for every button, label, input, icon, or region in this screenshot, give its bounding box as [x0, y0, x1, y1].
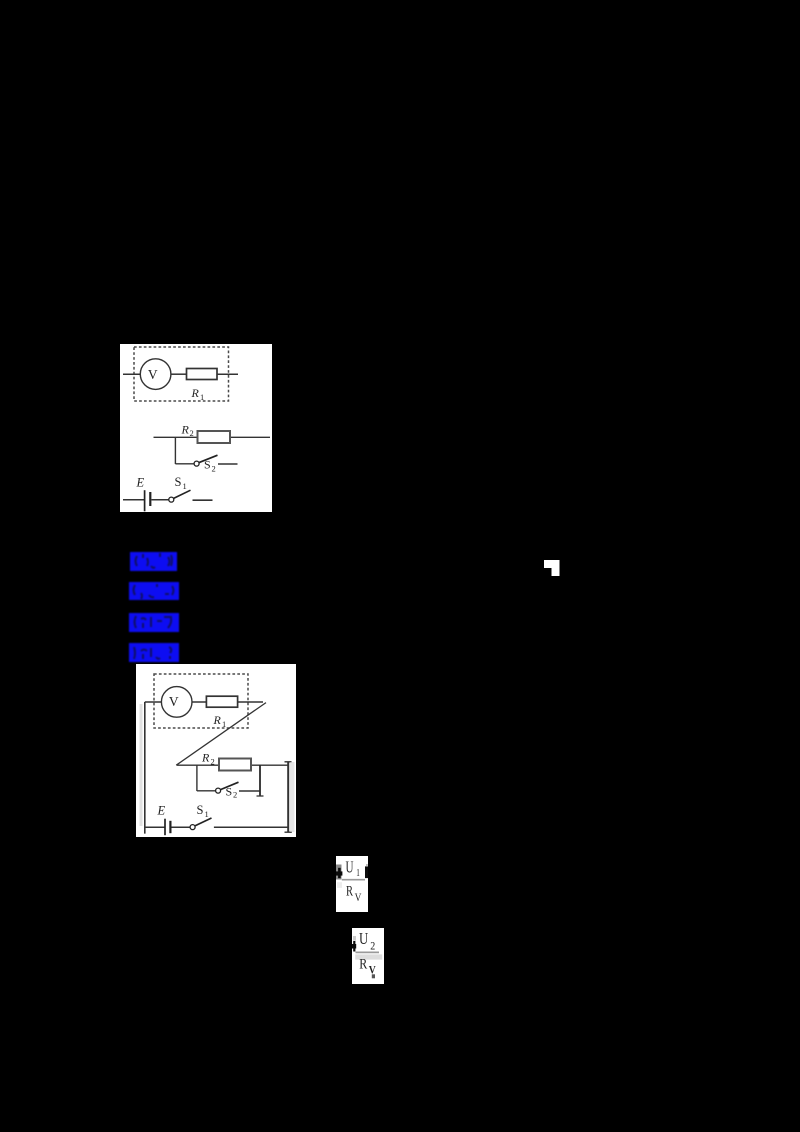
resistor R2 — [198, 431, 231, 443]
svg-text:2: 2 — [212, 463, 216, 473]
svg-text:1: 1 — [356, 867, 360, 879]
fraction U2/RV box — [352, 928, 384, 984]
wire after S1 to right — [213, 826, 287, 828]
wire R2 row — [154, 436, 271, 438]
plus artifact — [338, 868, 341, 878]
wire branch vertical — [174, 437, 176, 464]
svg-text:S: S — [204, 458, 211, 472]
svg-text:S: S — [225, 785, 232, 799]
fraction bar — [342, 879, 365, 881]
left wire gray shadow — [139, 704, 142, 826]
wire branch right vertical — [259, 765, 261, 796]
svg-text:S: S — [175, 475, 182, 489]
svg-text:2: 2 — [370, 940, 375, 952]
battery E long plate — [164, 819, 166, 836]
switch S1 pivot — [190, 825, 195, 830]
resistor R1 — [187, 369, 218, 380]
svg-text:1: 1 — [204, 809, 208, 819]
blue highlight label 3 — [129, 613, 179, 632]
wire lead to V — [144, 701, 161, 703]
gray artifact left — [336, 865, 342, 880]
wire V to R1 — [171, 373, 187, 375]
wire battery to S1 — [152, 499, 169, 501]
wire to battery — [144, 826, 164, 828]
dashed voltmeter box — [154, 674, 248, 728]
svg-text:U: U — [346, 858, 354, 877]
svg-text:R: R — [212, 713, 221, 727]
battery E short plate — [149, 492, 151, 506]
svg-text:R: R — [181, 423, 190, 437]
right bar artifact — [365, 866, 368, 878]
blue highlight label 4 — [129, 643, 179, 662]
wire right vertical top cap — [284, 761, 291, 763]
svg-text:E: E — [156, 804, 165, 818]
battery E long plate — [144, 490, 146, 511]
blue highlight label 1 — [130, 552, 177, 571]
resistor R2 — [219, 759, 251, 771]
wire left vertical — [143, 702, 145, 834]
wire to battery — [123, 499, 145, 501]
svg-text:V: V — [355, 890, 362, 904]
svg-text:1: 1 — [183, 481, 187, 491]
fraction U1/RV box — [336, 856, 368, 912]
svg-text:1: 1 — [200, 392, 204, 402]
gray band below bar — [355, 954, 382, 959]
circuit panel 1 (question figure) — [120, 344, 272, 512]
svg-text:U: U — [359, 929, 368, 948]
plus artifact — [353, 941, 355, 952]
wire branch right vertical foot — [256, 795, 263, 797]
faint gray patch — [337, 882, 342, 888]
svg-text:S: S — [196, 803, 203, 817]
svg-text:V: V — [168, 694, 178, 709]
switch S1 blade — [194, 818, 211, 826]
switch S1 pivot — [169, 497, 174, 502]
svg-text:R: R — [191, 386, 200, 400]
wire after S2 — [218, 463, 238, 465]
fraction bar — [356, 951, 380, 953]
wire right vertical bottom cap — [284, 831, 291, 833]
wire R1 right lead — [237, 701, 262, 703]
wire after S1 — [193, 499, 213, 501]
svg-text:R: R — [359, 957, 367, 973]
battery E short plate — [169, 821, 171, 833]
svg-text:2: 2 — [233, 790, 237, 800]
svg-text:E: E — [136, 476, 145, 490]
wire R1 right lead — [217, 373, 238, 375]
wire branch left vertical — [195, 765, 197, 791]
wire far right vertical — [287, 762, 289, 833]
circuit panel 2 (answer figure) — [136, 664, 297, 837]
svg-text:V: V — [148, 367, 158, 382]
switch S2 blade — [199, 455, 218, 462]
wire V to R1 — [192, 701, 206, 703]
wire R2 row — [176, 764, 288, 766]
wire battery to S1 — [171, 826, 190, 828]
gray strip artifact — [353, 936, 356, 941]
svg-text:1: 1 — [222, 719, 226, 729]
voltmeter V — [161, 687, 192, 718]
wire branch to S2 — [196, 790, 215, 792]
right wire gray shadow — [290, 762, 295, 832]
svg-text:2: 2 — [190, 428, 194, 438]
switch S2 pivot — [194, 461, 199, 466]
wire branch to S2 — [175, 463, 194, 465]
svg-text:R: R — [346, 883, 353, 899]
artifact below V — [372, 974, 375, 978]
wire after S2 — [239, 790, 260, 792]
svg-text:R: R — [201, 751, 210, 765]
resistor R1 — [206, 696, 237, 707]
blue highlight label 2 — [129, 582, 179, 600]
small white artifact glyph — [543, 559, 561, 577]
voltmeter V — [140, 359, 171, 390]
wire diagonal — [176, 703, 266, 766]
switch S2 blade — [220, 782, 238, 789]
wire left lead — [123, 373, 140, 375]
dashed voltmeter box — [134, 347, 229, 401]
switch S1 blade — [174, 490, 191, 498]
switch S2 pivot — [215, 788, 220, 793]
